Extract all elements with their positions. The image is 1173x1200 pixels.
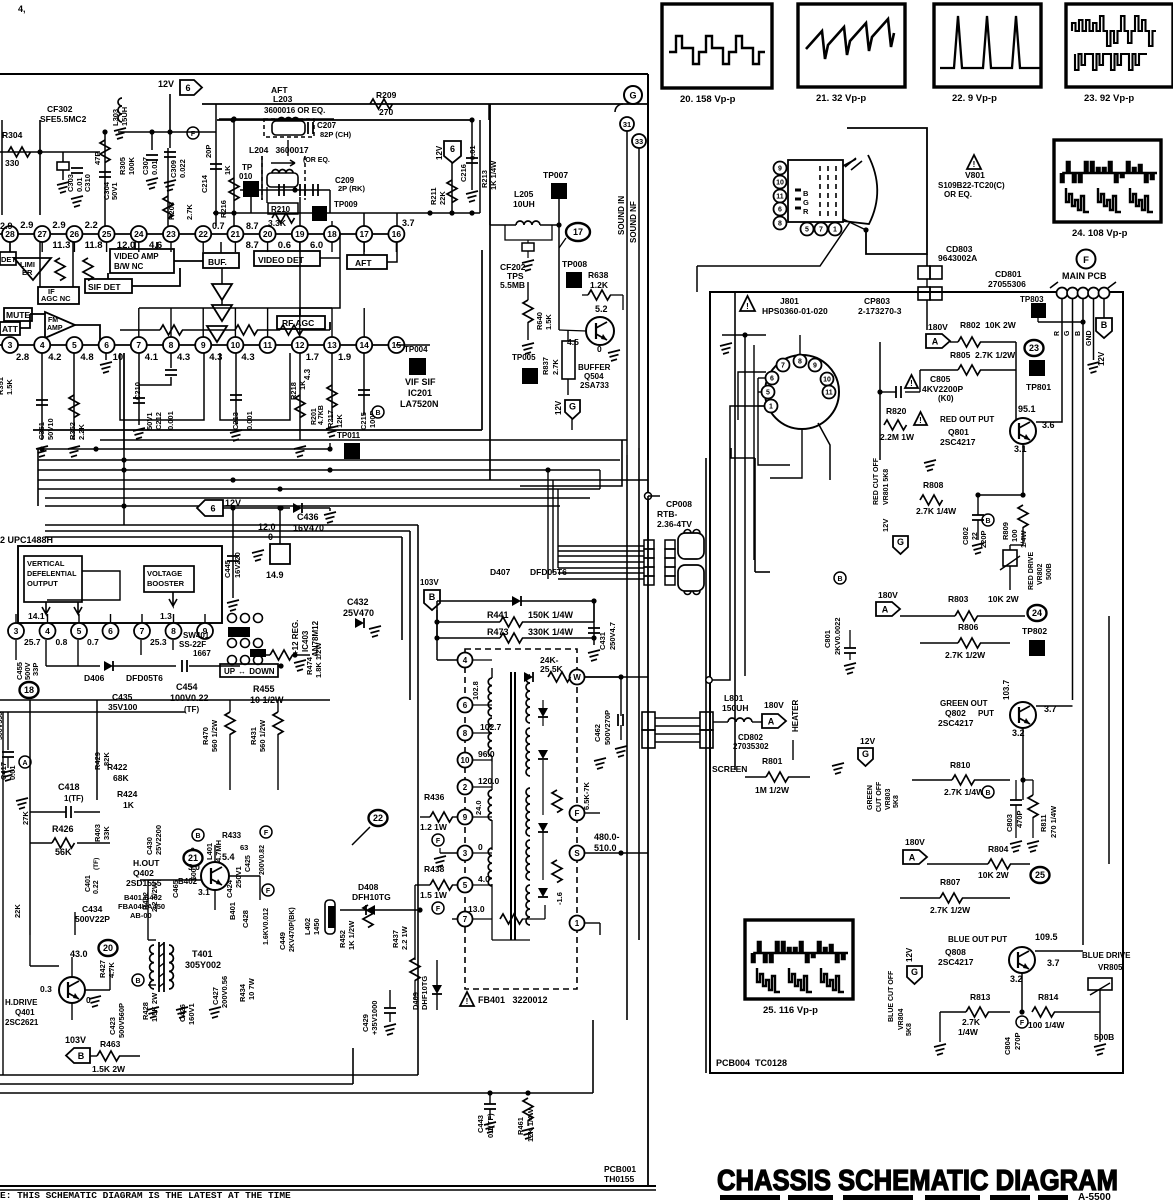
svg-text:180V: 180V [764, 700, 784, 710]
svg-text:20: 20 [263, 229, 273, 239]
svg-text:1.5K: 1.5K [5, 379, 14, 395]
wire connector row2 [139, 307, 332, 309]
svg-text:500B: 500B [1094, 1032, 1114, 1042]
wire [147, 880, 149, 940]
svg-text:S: S [574, 849, 580, 858]
svg-text:17: 17 [573, 227, 583, 237]
wire socket extra [738, 372, 766, 420]
wire AFT coil riser [287, 140, 289, 156]
wire [169, 94, 171, 130]
svg-text:25.7: 25.7 [24, 637, 41, 647]
wire diagonal to left [697, 222, 850, 266]
wire [615, 104, 623, 112]
svg-text:4: 4 [45, 626, 50, 636]
svg-text:TP011: TP011 [337, 431, 361, 440]
svg-text:4.3: 4.3 [303, 368, 312, 380]
wire [522, 918, 545, 920]
wire bottom nested [0, 1074, 418, 1076]
wire [39, 242, 41, 287]
svg-text:G: G [911, 967, 918, 977]
wire [919, 370, 921, 392]
svg-text:OUTPUT: OUTPUT [27, 579, 58, 588]
wire left edge [1, 120, 3, 215]
svg-text:G: G [629, 91, 636, 101]
svg-text:480.0-: 480.0- [594, 832, 620, 842]
pin 5 J801 socket [762, 386, 775, 399]
pin 10 J801 socket [821, 373, 834, 386]
CRT envelope [847, 128, 927, 254]
wire bus [45, 505, 560, 507]
svg-text:24.0: 24.0 [474, 800, 483, 815]
svg-text:160V1: 160V1 [187, 1003, 196, 1025]
ground [133, 428, 145, 439]
svg-text:DFH10TG: DFH10TG [352, 892, 391, 902]
pin 8 IC402 [173, 614, 175, 623]
ground [1088, 362, 1100, 373]
svg-text:6: 6 [450, 144, 455, 154]
wire [479, 120, 481, 213]
wire [648, 776, 745, 778]
svg-text:R217: R217 [326, 410, 335, 428]
svg-text:4.5: 4.5 [567, 337, 579, 347]
diode stack [207, 284, 232, 342]
svg-text:103.7: 103.7 [1002, 679, 1011, 700]
svg-text:PUT: PUT [978, 709, 994, 718]
pin 8 FB401 [458, 726, 473, 741]
connector cell [644, 567, 654, 576]
svg-text:82P (CH): 82P (CH) [320, 130, 352, 139]
wire bus [38, 459, 620, 461]
capacitor C805 4KV2200P [905, 375, 918, 388]
svg-text:0: 0 [268, 532, 273, 542]
ground [466, 191, 478, 202]
svg-text:4.2: 4.2 [48, 352, 61, 363]
svg-text:SS-22F: SS-22F [179, 640, 206, 649]
pin 8 V801 [774, 217, 787, 230]
wire [926, 300, 928, 330]
svg-text:25.3: 25.3 [150, 637, 167, 647]
wire riser cap row [329, 190, 331, 213]
svg-text:3.7: 3.7 [402, 218, 415, 228]
node 25 [1031, 867, 1050, 883]
svg-text:R820: R820 [886, 406, 907, 416]
svg-text:50V1: 50V1 [110, 182, 119, 200]
wire [139, 377, 171, 385]
svg-text:A: A [22, 760, 27, 767]
svg-text:27035302: 27035302 [733, 742, 769, 751]
svg-text:3.2: 3.2 [1010, 974, 1023, 984]
svg-text:25V2200: 25V2200 [154, 825, 163, 855]
connector CD802 [642, 712, 655, 730]
svg-text:GREEN: GREEN [867, 785, 874, 810]
wire [156, 242, 158, 249]
wire [30, 313, 45, 315]
box VIDEO AMP B/W NC [110, 249, 174, 273]
svg-text:330: 330 [5, 158, 19, 168]
pin 9 FB401 [458, 810, 473, 825]
svg-text:3: 3 [463, 849, 468, 858]
wire box around C210/C212 [120, 353, 204, 420]
svg-text:22. 9 Vp-p: 22. 9 Vp-p [952, 93, 997, 104]
wire G line [1072, 299, 1074, 700]
pin 7 IC201 [131, 337, 147, 353]
pin 6 J801 socket [766, 372, 779, 385]
svg-text:1667: 1667 [193, 649, 211, 658]
svg-text:SFE5.5MC2: SFE5.5MC2 [40, 114, 87, 124]
svg-text:8.7: 8.7 [246, 240, 259, 251]
svg-text:2SC4217: 2SC4217 [940, 437, 976, 447]
svg-text:109.5: 109.5 [1035, 932, 1058, 942]
svg-text:10 7W: 10 7W [247, 977, 256, 1000]
svg-text:C805: C805 [930, 374, 951, 384]
wire [647, 74, 649, 460]
pin 5 FB401 [458, 878, 473, 893]
switch contact [254, 656, 263, 665]
CRT flare [843, 155, 877, 224]
svg-text:2.2M 1W: 2.2M 1W [880, 432, 915, 442]
svg-text:SCREEN: SCREEN [712, 764, 747, 774]
ground [36, 446, 48, 457]
svg-text:R: R [803, 207, 809, 216]
svg-text:BOOSTER: BOOSTER [147, 579, 185, 588]
wire [610, 294, 623, 296]
node junction [487, 1090, 492, 1095]
ground [71, 196, 83, 207]
svg-text:0.022: 0.022 [178, 159, 187, 178]
svg-text:VOLTAGE: VOLTAGE [147, 569, 182, 578]
wire [240, 189, 330, 191]
svg-text:1.5K 2W: 1.5K 2W [92, 1064, 126, 1074]
svg-text:2.9: 2.9 [20, 220, 33, 231]
svg-text:10UH: 10UH [513, 199, 535, 209]
wire [120, 329, 160, 331]
diodes in flyback [538, 708, 548, 717]
svg-text:R305: R305 [118, 157, 127, 175]
wire [978, 494, 1023, 496]
wire GND line [1093, 299, 1095, 360]
svg-text:6: 6 [108, 626, 113, 636]
svg-text:R428: R428 [141, 1002, 150, 1020]
svg-text:OR EQ.: OR EQ. [944, 190, 972, 199]
pin 11 IC201 [260, 337, 276, 353]
svg-text:0.01: 0.01 [150, 160, 159, 175]
svg-text:HEATER: HEATER [791, 699, 800, 732]
svg-text:F: F [436, 906, 441, 913]
wire vertical [705, 458, 707, 1073]
svg-text:H.OUT: H.OUT [133, 858, 160, 868]
svg-text:23: 23 [166, 229, 176, 239]
svg-text:2.9: 2.9 [52, 220, 65, 231]
wire [140, 640, 142, 655]
wire [250, 197, 252, 213]
pin 28 IC201 [2, 226, 18, 242]
svg-text:R463: R463 [100, 1039, 121, 1049]
pin 6 FB401 [458, 698, 473, 713]
svg-text:010: 010 [239, 172, 253, 181]
node dots D407 rows [434, 619, 439, 624]
svg-text:120.0: 120.0 [478, 776, 500, 786]
svg-text:68K: 68K [113, 773, 129, 783]
svg-text:C432: C432 [347, 597, 369, 607]
svg-text:1.7: 1.7 [306, 352, 319, 363]
svg-text:A: A [768, 716, 775, 726]
svg-text:5: 5 [766, 390, 770, 397]
wire [558, 198, 560, 330]
svg-text:DFD05T6: DFD05T6 [126, 673, 163, 683]
ground [89, 996, 101, 1007]
svg-text:2SC4217: 2SC4217 [938, 957, 974, 967]
svg-text:102.8: 102.8 [471, 681, 480, 700]
svg-text:2.8: 2.8 [16, 352, 29, 363]
svg-text:TP009: TP009 [334, 200, 358, 209]
box UP DOWN [220, 664, 278, 677]
node 33 [632, 134, 646, 148]
svg-text:4: 4 [40, 340, 45, 350]
ground [105, 353, 107, 360]
svg-text:200V0.56: 200V0.56 [220, 976, 229, 1008]
wire nested corner [731, 448, 755, 458]
svg-text:(TF): (TF) [184, 705, 199, 714]
svg-text:12V: 12V [158, 79, 174, 89]
resistor fb401 low [500, 914, 523, 924]
svg-text:R461: R461 [516, 1117, 525, 1135]
wire riser pin19 [299, 197, 301, 226]
wires H section [30, 965, 59, 967]
svg-text:R441: R441 [487, 610, 509, 620]
wire [0, 73, 648, 75]
svg-text:CHASSIS SCHEMATIC DIAGRAM: CHASSIS SCHEMATIC DIAGRAM [717, 1165, 1118, 1197]
resistor internal [55, 258, 65, 281]
wire [0, 151, 100, 153]
box RF AGC [277, 316, 325, 329]
wire sound nf [638, 148, 640, 448]
svg-text:F: F [1083, 255, 1089, 266]
svg-text:0.22: 0.22 [93, 880, 100, 894]
svg-text:B/W NC: B/W NC [114, 262, 144, 271]
wire [37, 449, 39, 506]
svg-text:2.2: 2.2 [85, 220, 98, 231]
svg-text:10K 2W: 10K 2W [988, 594, 1020, 604]
svg-text:2SC4217: 2SC4217 [938, 718, 974, 728]
svg-text:B: B [803, 189, 809, 198]
wire [1021, 973, 1023, 1012]
svg-text:13: 13 [327, 340, 337, 350]
wire [648, 495, 660, 497]
svg-text:13.0: 13.0 [468, 904, 485, 914]
wire riser pin16 [396, 213, 398, 226]
svg-text:2KV0.0022: 2KV0.0022 [833, 617, 842, 655]
svg-text:4KV2200P: 4KV2200P [922, 384, 963, 394]
pin 21 IC201 [227, 226, 243, 242]
svg-text:1M 1/2W: 1M 1/2W [755, 785, 790, 795]
svg-text:R814: R814 [1038, 992, 1059, 1002]
svg-text:SW401: SW401 [183, 631, 210, 640]
svg-text:1K: 1K [223, 165, 232, 175]
svg-text:GREEN OUT: GREEN OUT [940, 699, 988, 708]
connector cell [644, 540, 654, 549]
svg-text:C436: C436 [297, 512, 319, 522]
svg-text:2.9: 2.9 [0, 221, 13, 231]
wires socket leads [758, 377, 766, 379]
svg-text:R304: R304 [2, 130, 23, 140]
wire [396, 344, 430, 346]
svg-text:19: 19 [295, 229, 305, 239]
svg-text:20. 158 Vp-p: 20. 158 Vp-p [680, 94, 736, 105]
svg-text:2-173270-3: 2-173270-3 [858, 306, 902, 316]
svg-text:R426: R426 [52, 824, 74, 834]
svg-text:35V100: 35V100 [108, 702, 138, 712]
ground [434, 856, 446, 867]
ground [147, 1007, 159, 1018]
svg-text:8: 8 [778, 221, 782, 228]
pin 26 IC201 [66, 226, 82, 242]
svg-text:+12 REG.: +12 REG. [291, 620, 300, 655]
pin 25 IC201 [99, 226, 115, 242]
svg-text:Q802: Q802 [945, 708, 966, 718]
transformer winding left [510, 672, 512, 940]
ground [588, 650, 600, 661]
wire bus [45, 497, 590, 499]
svg-text:6: 6 [770, 376, 774, 383]
connector MAIN PCB circles [1050, 282, 1116, 288]
wire from W pin [585, 676, 648, 678]
wire [300, 234, 340, 316]
wire riser pin17 [363, 213, 365, 226]
svg-text:T401: T401 [192, 949, 213, 959]
svg-text:22: 22 [198, 229, 208, 239]
ground [384, 1024, 396, 1035]
wires socket to bottom [818, 423, 830, 480]
svg-text:500V270P: 500V270P [603, 710, 612, 745]
svg-text:TP005: TP005 [512, 353, 536, 362]
svg-text:6.5K-7K: 6.5K-7K [582, 781, 591, 810]
svg-text:E: THIS SCHEMATIC DIAGRAM IS T: E: THIS SCHEMATIC DIAGRAM IS THE LATEST … [0, 1190, 291, 1200]
node 20 [99, 940, 118, 956]
wire [647, 496, 649, 540]
node junction [742, 332, 747, 337]
svg-text:2.7K 1/4W: 2.7K 1/4W [944, 787, 985, 797]
svg-text:R211: R211 [429, 187, 438, 205]
svg-text:21. 32 Vp-p: 21. 32 Vp-p [816, 93, 866, 104]
wire top right of fb [593, 601, 595, 622]
svg-text:UP: UP [224, 667, 237, 676]
svg-text:TP007: TP007 [543, 170, 568, 180]
wire [490, 224, 516, 226]
svg-text:BUF.: BUF. [208, 257, 227, 267]
svg-text:7: 7 [781, 363, 785, 370]
svg-text:1: 1 [769, 404, 773, 411]
wire [134, 242, 136, 249]
ground [326, 426, 338, 437]
svg-text:2.36-4TV: 2.36-4TV [657, 519, 692, 529]
switch contact [254, 639, 263, 648]
node junction [278, 663, 283, 668]
svg-text:R640: R640 [535, 312, 544, 330]
wire bottom nested [0, 1083, 353, 1085]
wire bus [38, 479, 648, 481]
svg-text:C303: C303 [66, 174, 75, 192]
pin 7 FB401 [458, 912, 473, 927]
svg-text:16: 16 [392, 229, 402, 239]
box AFT [347, 255, 387, 269]
svg-text:C425: C425 [245, 855, 252, 872]
svg-text:RED CUT OFF: RED CUT OFF [873, 457, 880, 505]
svg-text:VR802: VR802 [1037, 563, 1044, 585]
pin 15 IC201 [388, 337, 404, 353]
pin 20 IC201 [260, 226, 276, 242]
svg-text:R352: R352 [68, 422, 77, 440]
svg-text:150K 1/4W: 150K 1/4W [528, 610, 574, 620]
svg-text:50V1: 50V1 [145, 412, 154, 430]
svg-text:+35V1000: +35V1000 [370, 1001, 379, 1035]
svg-text:AMP: AMP [47, 325, 63, 332]
amplifier LIMITER [14, 258, 51, 280]
waveform box 23. 92 Vp-p [1066, 4, 1173, 87]
arrow IC402 pin5 [74, 602, 82, 614]
pin 23 IC201 [163, 226, 179, 242]
svg-text:2.7K 1/4W: 2.7K 1/4W [916, 506, 957, 516]
wire [29, 700, 31, 935]
svg-text:180V: 180V [905, 837, 925, 847]
svg-text:3.6: 3.6 [1042, 420, 1055, 430]
pin stubs row2 up [138, 308, 140, 337]
pins bottom V801 [801, 223, 814, 236]
svg-text:7: 7 [819, 227, 823, 234]
svg-text:3: 3 [8, 340, 13, 350]
svg-text:R806: R806 [958, 622, 979, 632]
svg-text:R438: R438 [424, 864, 445, 874]
svg-text:C801: C801 [823, 630, 832, 648]
svg-text:RED OUT PUT: RED OUT PUT [940, 415, 994, 424]
svg-text:12V: 12V [1097, 351, 1106, 366]
svg-text:0.01: 0.01 [8, 765, 17, 780]
svg-text:2P (RK): 2P (RK) [338, 184, 365, 193]
wire [655, 717, 700, 719]
ground [114, 128, 126, 139]
svg-text:BUFFER: BUFFER [578, 363, 611, 372]
svg-text:25: 25 [102, 229, 112, 239]
svg-text:10: 10 [113, 352, 124, 363]
wire [1099, 990, 1101, 1012]
svg-text:1.8K 1/2W: 1.8K 1/2W [314, 642, 323, 678]
svg-text:12V: 12V [435, 145, 444, 160]
svg-text:1.3: 1.3 [160, 611, 172, 621]
svg-text:560 1/2W: 560 1/2W [210, 719, 219, 752]
wire inner border [734, 292, 736, 770]
svg-text:R437: R437 [391, 930, 400, 948]
node junction dots top [230, 117, 235, 122]
svg-text:R424: R424 [117, 789, 138, 799]
svg-text:25. 116 Vp-p: 25. 116 Vp-p [763, 1005, 818, 1016]
svg-text:33P: 33P [31, 663, 40, 676]
switch body [228, 627, 250, 637]
svg-text:C804: C804 [1003, 1036, 1012, 1055]
wire [799, 335, 801, 354]
arrow IC402 pin8 [169, 592, 177, 606]
wire from S pin [585, 852, 648, 854]
svg-text:G: G [803, 198, 809, 207]
svg-text:2.7K: 2.7K [551, 359, 560, 375]
pin 3 IC402 [15, 614, 17, 623]
ground [844, 663, 856, 674]
pin 17 IC201 [356, 226, 372, 242]
switch contact [241, 656, 250, 665]
svg-text:11.8: 11.8 [85, 240, 103, 251]
svg-text:R813: R813 [970, 992, 991, 1002]
svg-text:VR801 5K8: VR801 5K8 [883, 469, 890, 505]
switch contact [228, 656, 237, 665]
svg-text:TP801: TP801 [1026, 382, 1051, 392]
